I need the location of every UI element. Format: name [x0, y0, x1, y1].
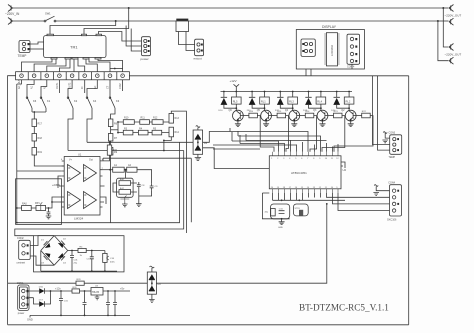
- svg-text:+5v: +5v: [120, 287, 125, 291]
- wire op-amp out to bus mid3: [102, 158, 104, 161]
- wire DB1 lower out: [203, 148, 270, 169]
- supply symbol V+: [56, 183, 59, 188]
- svg-text:78L05: 78L05: [92, 290, 100, 294]
- DISPLAY block: [296, 25, 364, 69]
- resistor R30: [72, 287, 80, 293]
- svg-text:K4: K4: [93, 99, 97, 103]
- wire left drop: [262, 193, 272, 219]
- svg-text:11: 11: [325, 187, 327, 189]
- wire frame left: [8, 76, 16, 325]
- relay contact K1: [40, 80, 51, 112]
- resistor R13 vertical: [169, 114, 180, 124]
- ground bus bottom: [30, 314, 130, 316]
- svg-text:20: 20: [271, 187, 273, 189]
- svg-text:+12V: +12V: [230, 79, 237, 83]
- svg-text:R15: R15: [113, 149, 118, 152]
- svg-text:GND: GND: [27, 318, 33, 322]
- ground pot cluster: [46, 216, 52, 219]
- resistor R10: [123, 117, 134, 125]
- wires mcu bottom to crystal bus: [273, 193, 303, 201]
- svg-text:TEMP: TEMP: [389, 156, 396, 159]
- svg-text:DKC106: DKC106: [387, 218, 397, 221]
- svg-text:AT89C4051: AT89C4051: [291, 171, 307, 175]
- connector TEMP (2 pin): [18, 41, 31, 59]
- wire reg out: [103, 290, 130, 292]
- relay RL5: [232, 91, 242, 111]
- svg-text:DISPLAY: DISPLAY: [322, 25, 337, 29]
- wire bridge pos rail: [68, 250, 78, 252]
- svg-text:R17: R17: [38, 123, 43, 126]
- resistor A10: [119, 178, 131, 185]
- wire row1 feed: [118, 114, 171, 123]
- wire TR1 sec7 to terminal: [86, 59, 97, 72]
- bus mid3: [103, 158, 191, 222]
- svg-text:15: 15: [301, 187, 303, 189]
- svg-text:K1: K1: [47, 99, 51, 103]
- capacitor C9: [150, 183, 158, 191]
- relay contact K3: [59, 80, 122, 119]
- wire down to out3: [443, 8, 448, 47]
- bus y283: [8, 204, 327, 283]
- svg-text:LM324: LM324: [74, 217, 84, 221]
- pot cluster left: resistor RA0: [22, 203, 32, 211]
- squiggle above CON-D gnd: [374, 185, 378, 187]
- svg-text:+2V: +2V: [52, 183, 57, 187]
- resistor R4: [138, 127, 148, 135]
- ground below DB1: [195, 154, 201, 160]
- wire to caps: [86, 250, 105, 252]
- wire live to TR1 primary: [84, 8, 129, 34]
- wire op-amp lower pins: [52, 197, 62, 202]
- wire: [110, 141, 112, 148]
- capacitor C20: [113, 291, 117, 315]
- capacitor C15 polarized: [59, 299, 69, 316]
- svg-text:RP1: RP1: [35, 202, 40, 205]
- wire down to out4: [438, 21, 449, 61]
- svg-text:OUT2: OUT2: [69, 82, 72, 89]
- svg-text:3: 3: [283, 158, 284, 160]
- svg-text:RL5: RL5: [233, 99, 238, 103]
- svg-text:9: 9: [319, 158, 320, 160]
- svg-text:8: 8: [313, 158, 314, 160]
- resistor R18: [32, 134, 43, 142]
- squiggle above DB2: [150, 266, 155, 272]
- wire mcu right stub: [341, 162, 345, 168]
- capacitor C18: [83, 303, 87, 316]
- svg-text:Out: Out: [89, 158, 93, 161]
- relay unit 5: diode D14: [331, 91, 349, 112]
- resistor R14 vertical: [169, 127, 180, 137]
- svg-text:OUT1: OUT1: [56, 82, 59, 89]
- svg-text:RL3: RL3: [289, 99, 294, 103]
- resistor R3: [123, 127, 133, 135]
- op-amp A triangle: [68, 165, 81, 182]
- wire op-amp out1 to R feedback: [103, 155, 110, 161]
- capacitor C14: [70, 255, 78, 271]
- connector J-disp (2x2): [301, 39, 315, 56]
- switch SW1: [44, 12, 56, 22]
- connector extout (2 pin): [194, 39, 204, 60]
- bridge rectifier diamond: [41, 236, 68, 266]
- wire op-amp out2 chain: [103, 169, 113, 171]
- wire: [110, 127, 112, 134]
- fuse FUSE1: [176, 19, 189, 32]
- resistor R22: [334, 111, 373, 152]
- svg-text:R11: R11: [141, 117, 146, 120]
- relay RL4: [316, 91, 326, 111]
- wire: [33, 127, 35, 134]
- ground near CON-T: [382, 133, 389, 143]
- pin stubs: [62, 161, 65, 207]
- transformer TR1: [44, 34, 106, 59]
- transistor Q6: [229, 109, 249, 127]
- bus mid2: [68, 150, 184, 152]
- connector CON2 charge: [17, 237, 31, 264]
- bus below mcu: [273, 199, 346, 201]
- regulator U3 78L05: [91, 285, 103, 300]
- wire frame right: [408, 76, 410, 325]
- capacitor C19: [106, 291, 110, 315]
- connector ~220V_OUT b pin2: [449, 57, 454, 64]
- wire neutral to TR1 primary: [50, 21, 116, 34]
- relay unit 1: diode D10: [219, 91, 237, 112]
- wire taps: [117, 122, 119, 133]
- svg-text:GND: GND: [278, 227, 283, 229]
- svg-text:RL1: RL1: [261, 99, 266, 103]
- nested rect A: [17, 142, 180, 222]
- op-amp C triangle: [68, 192, 81, 209]
- svg-text:11: 11: [331, 158, 333, 160]
- svg-text:CON4: CON4: [388, 181, 395, 184]
- svg-text:R14: R14: [175, 131, 180, 134]
- wire neutral mid: [56, 20, 176, 22]
- wire TR1 sec6 to terminal: [78, 59, 85, 72]
- wire mcu pins to CON-D: [327, 193, 390, 198]
- bus mid1: [87, 141, 193, 143]
- wire frame bottom: [8, 324, 409, 326]
- svg-text:16: 16: [295, 187, 297, 189]
- relay unit 4: diode D13: [303, 91, 321, 112]
- node junction on neutral for TR1: [115, 20, 117, 22]
- diode D3: [45, 253, 51, 258]
- wires cluster: [113, 183, 137, 192]
- svg-text:CON1: CON1: [17, 282, 24, 285]
- svg-text:6: 6: [301, 158, 302, 160]
- svg-text:XT91: XT91: [295, 208, 301, 210]
- connector ~220V_OUT b pin1: [449, 44, 454, 51]
- relay contact K2: [67, 80, 78, 151]
- resistor R26: [249, 111, 274, 152]
- connector ~220V_IN pin 1: [8, 5, 13, 12]
- svg-text:R18: R18: [38, 137, 43, 140]
- svg-text:CT: CT: [107, 85, 110, 89]
- connector CON-D right lower (4 pin): [387, 181, 401, 221]
- op-amp U1 LM324: [61, 153, 104, 221]
- connector CON1 power (3 pin) bottom: [17, 282, 29, 315]
- svg-text:7: 7: [307, 158, 308, 160]
- wire nest above mcu: [213, 132, 327, 152]
- power box 1: [34, 236, 125, 272]
- svg-text:R12: R12: [153, 117, 158, 120]
- resistor R19: [32, 148, 43, 156]
- connector ~220V_OUT a pin1: [449, 5, 454, 12]
- relay contact K6: [26, 80, 37, 112]
- crystal XT1 loop: [293, 204, 308, 216]
- svg-text:BT-DTZMC-RC5_V.1.1: BT-DTZMC-RC5_V.1.1: [299, 303, 389, 313]
- wire TEMP pin2 to TR1: [30, 48, 44, 50]
- +12V supply symbol: [230, 79, 240, 92]
- cluster box: [117, 178, 134, 197]
- transistor Q2: [341, 109, 361, 127]
- boxed diode pair DB2: [147, 272, 161, 294]
- capacitor C10 loop: [265, 204, 290, 219]
- capacitor C17: [87, 257, 94, 271]
- svg-text:centrset: centrset: [17, 262, 26, 265]
- pot RP1: [35, 202, 46, 211]
- wire: [33, 141, 35, 148]
- wire top live: [13, 7, 444, 9]
- wire display to CON-T: [373, 76, 390, 145]
- wire row2 feed: [118, 127, 171, 132]
- svg-text:RL4: RL4: [317, 99, 322, 103]
- capacitor C8: [137, 182, 145, 190]
- svg-text:12: 12: [336, 158, 338, 160]
- wire bridge neg down: [40, 251, 42, 272]
- wire to out2: [438, 20, 449, 22]
- svg-text:SW1: SW1: [45, 12, 51, 16]
- resistor R7: [108, 134, 117, 142]
- resistor A12: [119, 187, 131, 194]
- svg-text:TR1: TR1: [70, 44, 78, 49]
- resistor R25: [277, 111, 288, 152]
- node junction on live for TR1: [128, 7, 130, 9]
- svg-text:R13: R13: [175, 117, 180, 120]
- svg-text:+12v: +12v: [55, 286, 61, 290]
- wire chain to op-amp in: [34, 155, 64, 166]
- nested rect B: [15, 151, 184, 236]
- svg-text:R19: R19: [38, 151, 43, 154]
- wire top neutral left: [13, 20, 45, 22]
- diode pair DB1 boxed: [193, 130, 208, 154]
- wire CON1 to diodes: [29, 291, 39, 304]
- wire power conn pin1 to TR1: [99, 32, 142, 42]
- svg-text:~220V_OUT: ~220V_OUT: [445, 14, 462, 18]
- wire R13R14 join down: [164, 137, 171, 151]
- wire TR1 sec9 to terminal: [98, 59, 123, 72]
- squiggle above gnd: [383, 132, 387, 134]
- wire TR1 sec5 to terminal: [73, 59, 75, 72]
- pot RV2: [103, 251, 116, 272]
- svg-text:R10: R10: [124, 117, 129, 120]
- transistor Q5: [257, 109, 277, 127]
- op-amp B triangle: [84, 165, 97, 182]
- wire frame top right: [129, 75, 408, 77]
- svg-text:power: power: [141, 57, 149, 61]
- svg-text:LCD1602: LCD1602: [330, 44, 334, 56]
- resistor R6: [108, 119, 117, 127]
- resistor R23: [322, 111, 345, 152]
- wire power conn pin3 loop: [131, 29, 141, 52]
- transistor Q3: [313, 109, 333, 127]
- wire TR1 sec8 to terminal: [89, 59, 110, 72]
- svg-text:14: 14: [307, 187, 309, 189]
- ground near CON-D: [373, 187, 389, 196]
- svg-text:U2: U2: [343, 168, 347, 172]
- svg-text:IN: IN: [81, 86, 84, 89]
- svg-text:RA0: RA0: [22, 203, 27, 206]
- wires mcu bottom extra stubs: [309, 193, 321, 198]
- terminal strip TB1: [16, 72, 130, 80]
- svg-text:power: power: [18, 312, 25, 315]
- resistor R5: [152, 127, 162, 135]
- svg-text:10: 10: [325, 158, 327, 160]
- svg-text:RL2: RL2: [346, 99, 351, 103]
- svg-text:5: 5: [295, 158, 296, 160]
- wire contacts join: [32, 112, 46, 119]
- relay unit 3: diode D12: [275, 91, 293, 112]
- bottom bus power box1: [41, 270, 117, 272]
- svg-text:TEMP: TEMP: [18, 54, 27, 58]
- svg-text:4: 4: [289, 158, 290, 160]
- svg-text:~220V_OUT: ~220V_OUT: [445, 53, 462, 57]
- wire out lower: [103, 197, 107, 204]
- connector ~220V_IN pin 2: [8, 18, 13, 25]
- node junction neutral: [437, 20, 439, 22]
- relay RL2: [344, 91, 354, 111]
- svg-text:CON 4: CON 4: [347, 66, 355, 69]
- svg-text:2: 2: [277, 158, 278, 160]
- svg-text:COM: COM: [119, 83, 122, 89]
- wire left long vertical: [16, 84, 18, 223]
- diode D1: [45, 243, 51, 248]
- resistor RA06 vertical: [107, 145, 117, 155]
- wire TR1 sec1 to terminal: [22, 59, 53, 72]
- IC LCD1602: [326, 33, 337, 66]
- svg-text:CON2: CON2: [17, 237, 24, 240]
- svg-text:CON3: CON3: [389, 132, 396, 135]
- wire fuse to extout pin1: [179, 32, 195, 45]
- relay RL1: [260, 91, 270, 111]
- svg-text:K2: K2: [74, 99, 78, 103]
- wire power conn pin2 loop: [126, 26, 141, 47]
- microcontroller U2: [269, 152, 346, 193]
- wire TEMP pin1 to TR1: [30, 42, 44, 44]
- labels under terminals: [18, 79, 122, 89]
- resistor A2: [127, 164, 137, 172]
- connector J-disp2 (4 pin): [347, 34, 360, 64]
- capacitor C7: [47, 208, 51, 216]
- connector ~220V_OUT a pin2: [449, 18, 454, 25]
- diode D16: [39, 286, 58, 293]
- resistor A1: [113, 164, 125, 172]
- svg-text:U1: U1: [78, 153, 82, 157]
- resistor R11: [140, 117, 150, 125]
- relay unit 2: diode D11: [247, 91, 265, 112]
- wire below DB2: [149, 294, 155, 302]
- squiggle ac mark: [196, 126, 200, 128]
- wire to out1: [443, 7, 448, 9]
- svg-text:~220V_IN: ~220V_IN: [5, 12, 20, 16]
- svg-text:13: 13: [313, 187, 315, 189]
- connector CON-T right upper (4 pin): [389, 132, 402, 160]
- box around pot cluster: [16, 179, 62, 225]
- nested frame vertical x186: [171, 111, 186, 233]
- svg-text:extout: extout: [194, 57, 202, 61]
- svg-text:10: 10: [331, 187, 333, 189]
- svg-text:1: 1: [271, 158, 272, 160]
- transistor Q4: [285, 109, 305, 127]
- relay contact K4: [86, 80, 97, 143]
- wire neutral right: [189, 20, 438, 22]
- svg-text:K6: K6: [33, 99, 37, 103]
- wire chain down: [110, 155, 112, 223]
- wire op-amp left pins: [17, 170, 62, 172]
- connector power (3 pin): [141, 37, 151, 61]
- resistor R24: [305, 111, 316, 152]
- grounds cluster: [122, 202, 128, 206]
- node junction live: [442, 7, 444, 9]
- resistor R9: [108, 148, 117, 156]
- wire TR1 sec4 to terminal: [59, 59, 70, 72]
- wire CON2 to bridge: [30, 236, 54, 266]
- node sec junction: [114, 68, 116, 70]
- resistor R4b: [78, 247, 86, 258]
- pot arrow: [120, 196, 129, 203]
- wire DB1 out right: [203, 132, 230, 143]
- relay RL3: [288, 91, 298, 111]
- ground below cluster: [279, 219, 285, 225]
- wire fuse to extout pin2: [186, 32, 195, 51]
- svg-text:17: 17: [289, 187, 291, 189]
- svg-text:18: 18: [283, 187, 285, 189]
- svg-text:12: 12: [319, 187, 321, 189]
- wire TR1 sec2 to terminal: [34, 59, 56, 72]
- wire display bottom stubs: [306, 64, 352, 76]
- svg-text:19: 19: [277, 187, 279, 189]
- diode D2: [58, 243, 64, 248]
- diode D17: [39, 291, 51, 307]
- wire TR1 sec3 to terminal: [47, 59, 66, 72]
- resistor R29 on bus: [76, 279, 84, 285]
- diode D4: [58, 253, 64, 258]
- bus +12V relay rail: [221, 91, 353, 93]
- op-amp D triangle: [84, 192, 97, 209]
- wires mcu top left pins: [232, 140, 338, 152]
- svg-text:9: 9: [336, 187, 337, 189]
- svg-text:K3: K3: [116, 99, 120, 103]
- resistor R12: [152, 117, 163, 125]
- resistor R17: [32, 119, 43, 127]
